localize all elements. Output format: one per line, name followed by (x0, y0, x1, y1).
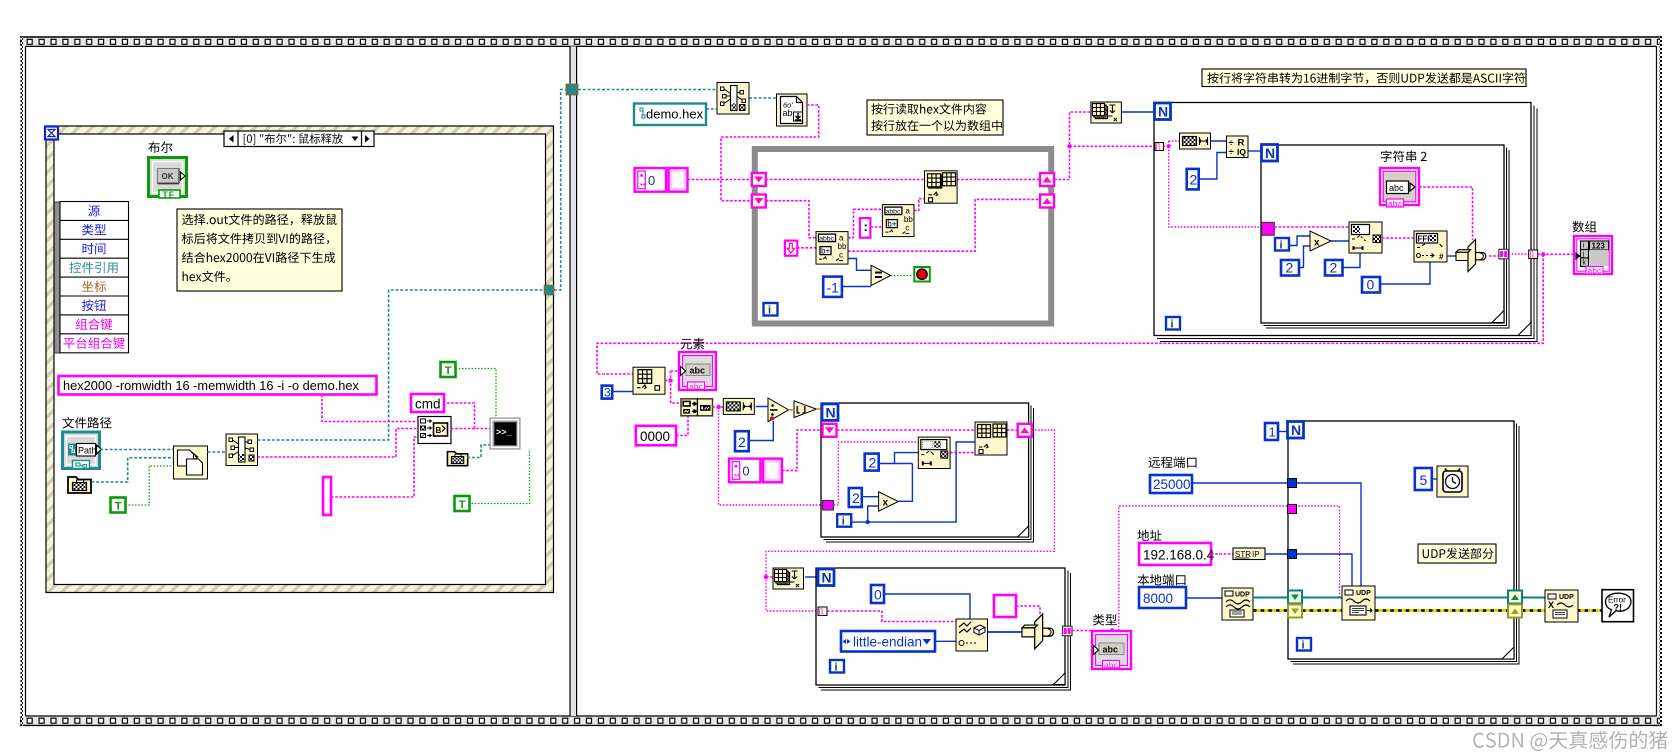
svg-text:abc: abc (1388, 199, 1402, 209)
svg-text:abc: abc (1104, 660, 1118, 670)
svg-text:c: c (839, 251, 843, 260)
svg-text:UDP: UDP (1559, 594, 1574, 601)
svg-text:0000: 0000 (640, 429, 670, 444)
svg-text:b+: b+ (887, 220, 896, 229)
svg-text:x: x (883, 498, 889, 509)
svg-text:0: 0 (648, 173, 655, 188)
svg-text:T: T (115, 500, 122, 512)
svg-text:j: j (1582, 251, 1585, 258)
svg-text:OK: OK (162, 172, 174, 181)
svg-text:abc: abc (1588, 266, 1602, 276)
svg-text:abc: abc (1389, 183, 1404, 193)
svg-text:demo.hex: demo.hex (646, 107, 704, 122)
svg-text:abc: abc (689, 382, 703, 392)
svg-text:hex2000 -romwidth 16 -memwidth: hex2000 -romwidth 16 -memwidth 16 -i -o … (63, 378, 359, 393)
svg-text:k: k (1582, 259, 1586, 266)
svg-text:3: 3 (604, 386, 611, 400)
svg-text:-1: -1 (827, 280, 840, 296)
svg-text:[]: [] (1156, 142, 1160, 151)
svg-text:?!: ?! (1614, 603, 1623, 613)
svg-text:IQ: IQ (1237, 147, 1246, 157)
svg-text:UDP: UDP (1356, 590, 1371, 597)
svg-text:192.168.0.4: 192.168.0.4 (1143, 548, 1215, 563)
svg-text:B: B (436, 426, 442, 435)
svg-text:abbc: abbc (886, 209, 901, 216)
svg-text:IP: IP (1252, 550, 1260, 559)
svg-text:Path: Path (78, 446, 97, 456)
svg-text:cmd: cmd (415, 397, 441, 412)
svg-text:0: 0 (1367, 277, 1375, 293)
svg-text:abc: abc (690, 366, 706, 376)
svg-text:i: i (768, 305, 771, 317)
svg-text:2: 2 (738, 434, 746, 450)
svg-text:[]: [] (819, 607, 823, 616)
svg-text:5: 5 (1420, 472, 1428, 488)
svg-text:c: c (905, 224, 909, 233)
svg-text:TF: TF (163, 190, 175, 200)
svg-text:x: x (1314, 238, 1320, 249)
svg-text:ab: ab (783, 108, 793, 118)
svg-text:b+: b+ (821, 247, 830, 256)
svg-text:UDP: UDP (1235, 592, 1250, 599)
svg-text:123: 123 (1592, 242, 1606, 251)
svg-text:÷: ÷ (1229, 147, 1234, 158)
svg-text:abc: abc (1103, 645, 1119, 655)
svg-text::: : (864, 219, 868, 234)
svg-text:2: 2 (869, 455, 877, 471)
svg-text:[]: [] (1530, 250, 1534, 259)
svg-text:25000: 25000 (1153, 477, 1191, 492)
svg-text:2: 2 (1330, 260, 1338, 276)
svg-text:0: 0 (874, 587, 882, 603)
svg-text:abbc: abbc (819, 236, 834, 243)
svg-text:little-endian: little-endian (853, 635, 922, 650)
svg-text:#: # (1439, 253, 1444, 262)
svg-text:X: X (1548, 600, 1554, 610)
svg-text:2: 2 (1286, 260, 1294, 276)
svg-text:1: 1 (1269, 425, 1276, 440)
svg-text:>>_: >>_ (496, 427, 513, 437)
svg-text:N: N (1158, 104, 1168, 120)
svg-text:8000: 8000 (1143, 591, 1173, 606)
svg-text:2: 2 (852, 490, 860, 506)
svg-text:2: 2 (1190, 172, 1198, 188)
